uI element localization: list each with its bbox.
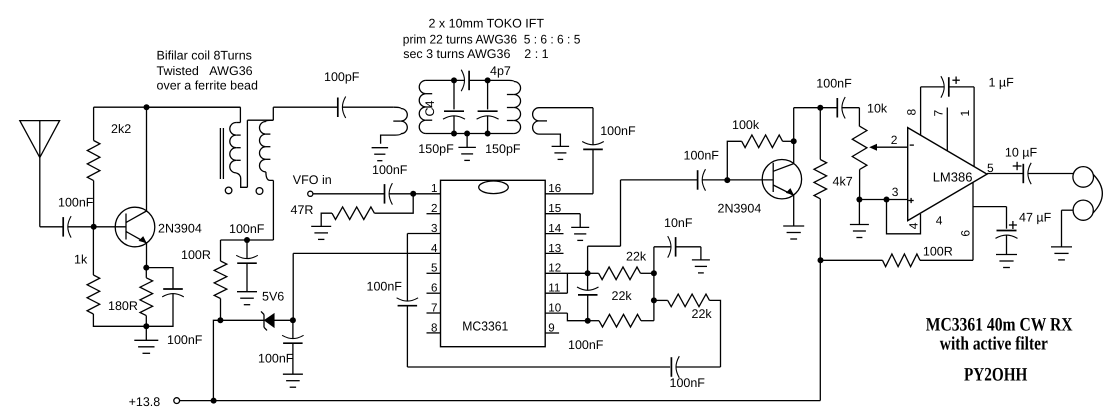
svg-text:3: 3: [892, 185, 899, 199]
pin 15 label: [548, 202, 561, 215]
svg-text:2: 2: [431, 202, 437, 215]
pin 2 stub: [427, 213, 441, 215]
pin 3 label: [431, 222, 437, 235]
wire pin3 branch to filter bottom: [407, 306, 670, 367]
wire Q2 emitter: [793, 195, 795, 226]
text TOKO note: [403, 17, 581, 61]
pin 1 wire: [958, 87, 974, 167]
pin 5 output wire: [987, 161, 1023, 175]
svg-text:100nF: 100nF: [229, 222, 265, 236]
IFT2 primary winding: [507, 82, 521, 134]
wire 10nF branch: [654, 247, 671, 273]
wire pin 15 to ground: [545, 214, 580, 228]
svg-text:180R: 180R: [108, 299, 138, 313]
wire to Q2 base cap: [621, 179, 698, 181]
svg-text:100nF: 100nF: [670, 376, 706, 390]
node pot bottom: [856, 197, 862, 203]
svg-text:2N3904: 2N3904: [718, 202, 762, 216]
node Q2 base: [724, 177, 730, 183]
pin 1 label: [431, 182, 437, 195]
svg-text:100nF: 100nF: [367, 280, 403, 294]
node zener right: [290, 317, 296, 323]
node pin4 branch: [884, 197, 890, 203]
node 100nF branch: [244, 237, 250, 243]
svg-text:1 µF: 1 µF: [989, 76, 1015, 90]
terminal (bifilar phase) B: [256, 188, 263, 195]
svg-text:16: 16: [548, 182, 561, 195]
node Q1 base junction: [91, 224, 97, 230]
svg-text:47R: 47R: [291, 203, 314, 217]
wire 4k7 to rail: [819, 260, 821, 400]
svg-text:100nF: 100nF: [816, 77, 852, 91]
phones jack upper: [1073, 167, 1094, 188]
svg-text:Twisted AWG36: Twisted AWG36: [157, 64, 253, 78]
wire Q2 collector to top node: [794, 108, 821, 142]
svg-text:22k: 22k: [612, 289, 633, 303]
wire pin 12 to node A: [545, 272, 587, 274]
wire cap to pot: [842, 108, 860, 127]
node IFT top left: [451, 77, 457, 83]
terminal (bifilar phase) A: [225, 187, 232, 194]
transistor Q1 2N3904: [115, 107, 202, 267]
svg-text:100k: 100k: [732, 118, 760, 132]
resistor 47R: [291, 194, 414, 227]
node IFT top right: [485, 77, 491, 83]
pin 8 wire: [905, 87, 921, 135]
capacitor 100nF (pin4 node): [258, 320, 304, 374]
resistor 100R (supply): [181, 240, 227, 320]
svg-text:8: 8: [905, 109, 919, 116]
antenna: [20, 121, 60, 227]
svg-text:MC3361: MC3361: [462, 319, 508, 334]
IFT1 link winding (2 turns): [381, 109, 408, 144]
svg-text:sec 3 turns AWG36 2 : 1: sec 3 turns AWG36 2 : 1: [403, 47, 548, 61]
svg-text:100nF: 100nF: [258, 352, 294, 366]
ground (pin 15): [571, 227, 589, 240]
node top supply: [817, 105, 823, 111]
svg-text:7: 7: [931, 110, 945, 117]
capacitor 47uF: [996, 211, 1052, 239]
svg-text:6: 6: [431, 282, 437, 295]
resistor 180R: [108, 268, 153, 327]
pin 2 label: [431, 202, 437, 215]
resistor 100k: [727, 118, 793, 180]
text title line3: [964, 365, 1028, 386]
svg-text:2k2: 2k2: [111, 122, 131, 136]
svg-text:1k: 1k: [74, 253, 88, 267]
resistor 22k (bottom): [588, 289, 654, 327]
wire VFO to cap: [313, 193, 385, 195]
ground (jack): [1051, 247, 1072, 260]
svg-text:1: 1: [958, 110, 972, 117]
node +13.8 junction: [211, 398, 217, 404]
pin 14 stub: [545, 233, 563, 235]
svg-text:100nF: 100nF: [684, 149, 720, 163]
svg-text:22k: 22k: [626, 250, 647, 264]
wire cap to pin 16: [545, 149, 593, 193]
capacitor 10uF: [1005, 146, 1038, 185]
pin 9 stub: [545, 332, 559, 334]
svg-text:MC3361 40m CW RX: MC3361 40m CW RX: [926, 314, 1073, 335]
wire +13.8 riser: [213, 320, 220, 400]
pot wiper arrow: [869, 133, 908, 151]
pin 6 label: [431, 282, 437, 295]
svg-text:4p7: 4p7: [490, 64, 511, 78]
pin 6 wire: [959, 182, 973, 260]
ground (100nF 5V6 filter): [237, 292, 257, 305]
svg-text:10k: 10k: [867, 102, 888, 116]
svg-text:6: 6: [959, 230, 973, 237]
svg-text:LM386: LM386: [933, 170, 973, 185]
ground (IFT2 secondary): [552, 146, 570, 159]
svg-text:C4: C4: [423, 100, 437, 116]
svg-text:100R: 100R: [181, 248, 211, 262]
svg-text:Bifilar coil 8Turns: Bifilar coil 8Turns: [157, 48, 252, 62]
svg-text:2N3904: 2N3904: [158, 222, 202, 236]
ground (link winding): [372, 148, 389, 161]
terminal +13.8: [174, 398, 180, 404]
svg-text:10nF: 10nF: [664, 216, 693, 230]
wire +13.8 rail: [180, 400, 821, 402]
phones jack cord arc: [1093, 175, 1102, 213]
svg-text:+13.8: +13.8: [129, 395, 161, 409]
node 4k7/pin6: [818, 257, 824, 263]
wire bifilar to 100pF: [273, 106, 338, 108]
wire 100pF to link coil: [342, 107, 400, 108]
svg-text:1: 1: [431, 182, 437, 195]
wire pin 4: [293, 253, 440, 320]
pin 12 label: [548, 262, 561, 275]
wire bifilar center riser: [247, 120, 273, 187]
wire cap to pin 1: [389, 193, 440, 195]
wire IFT2 sec to pin16 cap: [539, 108, 593, 145]
text title line2: [940, 334, 1048, 355]
resistor 1k: [74, 227, 146, 326]
wire cap to 22k drop: [676, 366, 721, 368]
bifilar winding 1: [230, 123, 248, 188]
svg-text:7: 7: [431, 301, 437, 314]
svg-text:5: 5: [431, 262, 437, 275]
ground (pot): [850, 200, 869, 238]
svg-text:4: 4: [907, 222, 921, 229]
node IFT bottom mid: [464, 131, 470, 137]
wire 1uF rail: [921, 86, 975, 88]
node Q1 collector junction: [144, 104, 150, 110]
svg-text:22k: 22k: [692, 307, 713, 321]
IFT2 secondary winding: [533, 108, 561, 147]
wire pin 3 branch: [407, 234, 440, 302]
ground (IFT bottom): [458, 134, 476, 161]
resistor 22k (top): [588, 250, 654, 280]
node Q1 emitter junction: [143, 265, 149, 271]
svg-text:VFO in: VFO in: [293, 173, 332, 187]
wire IFT bottom rail: [426, 133, 514, 135]
svg-text:10 µF: 10 µF: [1005, 146, 1038, 160]
svg-text:8: 8: [431, 321, 437, 334]
node C: [651, 270, 657, 276]
op-amp U2 LM386: [908, 128, 987, 221]
node VFO junction: [410, 191, 416, 197]
resistor 4k7: [814, 108, 853, 261]
pin 9 label: [548, 321, 554, 334]
capacitor 10nF: [664, 216, 693, 258]
svg-text:9: 9: [548, 321, 554, 334]
resistor 2k2: [87, 107, 131, 227]
svg-text:15: 15: [548, 202, 561, 215]
node zener left: [217, 317, 223, 323]
node B: [585, 318, 591, 324]
svg-text:100R: 100R: [923, 244, 953, 258]
node A: [585, 270, 591, 276]
pin 14 label: [548, 222, 561, 235]
wire jack to ground: [1062, 210, 1074, 247]
svg-text:100nF: 100nF: [568, 338, 604, 352]
svg-text:100nF: 100nF: [372, 163, 408, 177]
capacitor 100nF (Q2 collector): [816, 77, 852, 119]
pin 13 stub: [545, 252, 563, 254]
pin 8 stub: [427, 332, 441, 334]
wire Q2 collector: [793, 141, 795, 163]
svg-text:over a ferrite bead: over a ferrite bead: [157, 79, 258, 93]
svg-text:100nF: 100nF: [600, 124, 636, 138]
bifilar winding 2: [260, 107, 274, 180]
capacitor 100pF: [324, 70, 360, 118]
svg-text:4k7: 4k7: [833, 175, 853, 189]
ferrite core: [220, 128, 223, 179]
pin 16 label: [548, 182, 561, 195]
capacitor 100nF (Q1 emitter bypass): [146, 268, 203, 347]
capacitor 1uF: [941, 76, 1014, 98]
capacitor 100nF (pin3 branch): [367, 280, 419, 306]
pin 7 label: [431, 301, 437, 314]
wire Q1 collector rail: [94, 106, 241, 108]
wire cap to Q2 base: [702, 179, 773, 181]
ground (10nF): [692, 260, 710, 273]
svg-text:100nF: 100nF: [167, 333, 203, 347]
pin 8 label: [431, 321, 437, 334]
potentiometer 10k: [852, 102, 888, 200]
op-amp U1 MC3361 body: [441, 180, 546, 346]
node Q1 emitter ground junction: [143, 323, 149, 329]
svg-text:5V6: 5V6: [262, 290, 284, 304]
svg-text:14: 14: [548, 222, 561, 235]
pin 5 label: [431, 262, 437, 275]
capacitor 150pF (left): [418, 80, 465, 155]
text VFO in: [293, 173, 332, 187]
ground (Q1 emitter): [134, 326, 158, 353]
wire 47uF to ground: [1006, 235, 1008, 254]
resistor 22k (right): [654, 294, 721, 367]
wire 10uF to phones: [1028, 173, 1073, 175]
wire antenna to C 100nF: [40, 226, 63, 228]
svg-text:100nF: 100nF: [58, 196, 94, 210]
wire bifilar sec to 100R node: [221, 180, 274, 240]
node D: [651, 297, 657, 303]
pin 10 label: [548, 302, 561, 315]
wire pin 10 to node B: [545, 313, 588, 321]
svg-text:5: 5: [987, 161, 994, 175]
pin 7 stub: [427, 312, 441, 314]
capacitor 100nF (filter bottom): [670, 356, 706, 390]
wire node A to Q2 base link: [588, 180, 621, 273]
ground (pin4 node cap): [283, 374, 303, 387]
pin 13 label: [548, 242, 561, 255]
node Q2 collector: [791, 138, 797, 144]
ground (Q2 emitter): [783, 226, 804, 239]
svg-text:2 x 10mm TOKO IFT: 2 x 10mm TOKO IFT: [429, 17, 545, 31]
svg-text:with active filter: with active filter: [940, 334, 1048, 355]
wire pin 11 riser: [545, 273, 567, 293]
svg-text:13: 13: [548, 242, 561, 255]
pin 5 stub: [427, 272, 441, 274]
text +13.8: [129, 395, 161, 409]
svg-text:150pF: 150pF: [418, 142, 454, 156]
terminal VFO in: [308, 191, 313, 196]
capacitor 4p7: [461, 64, 511, 91]
capacitor 100nF (VFO): [372, 163, 408, 205]
wire IFT top rail: [426, 80, 514, 81]
svg-text:100pF: 100pF: [324, 70, 360, 84]
ground (47R): [311, 226, 331, 239]
zener diode 5V6: [220, 290, 293, 331]
capacitor 100nF (antenna input): [58, 196, 94, 238]
ground (47uF): [996, 255, 1017, 268]
node IFT bottom right: [485, 131, 491, 137]
pin 11 label: [548, 282, 560, 295]
text bifilar note: [157, 48, 258, 92]
resistor 100R (feedback): [821, 244, 974, 266]
wire filter mid riser: [653, 273, 655, 320]
svg-text:PY2OHH: PY2OHH: [964, 365, 1028, 386]
svg-text:4: 4: [936, 214, 943, 228]
wire pot bottom to + input: [859, 185, 907, 200]
wire collector to bifilar: [147, 107, 241, 122]
capacitor 100nF (Q2 base): [684, 149, 720, 191]
IFT1 primary winding C4: [419, 80, 437, 133]
svg-text:prim 22 turns AWG36 5 : 6 : 6: prim 22 turns AWG36 5 : 6 : 6 : 5: [403, 33, 581, 47]
pin 7 stub: [931, 108, 947, 151]
svg-text:2: 2: [891, 133, 898, 147]
wire 47uF branch: [973, 207, 1007, 229]
capacitor 150pF (right): [477, 80, 521, 155]
wire to Q1 base: [68, 226, 126, 228]
capacitor 100nF (5V6 filter): [229, 222, 265, 292]
pin 4 label: [431, 242, 438, 255]
phones jack lower: [1073, 200, 1093, 220]
svg-text:47 µF: 47 µF: [1019, 211, 1052, 225]
svg-text:150pF: 150pF: [485, 142, 521, 156]
transistor Q2 2N3904: [718, 160, 802, 216]
pin 6 stub: [427, 292, 441, 294]
capacitor 100nF (pin16): [582, 124, 636, 149]
text title line1: [926, 314, 1073, 335]
node IFT bottom left: [451, 131, 457, 137]
capacitor 100nF (filter): [568, 273, 604, 352]
wire LM386 pin 4: [887, 200, 943, 234]
wire 10nF to ground: [676, 247, 701, 260]
